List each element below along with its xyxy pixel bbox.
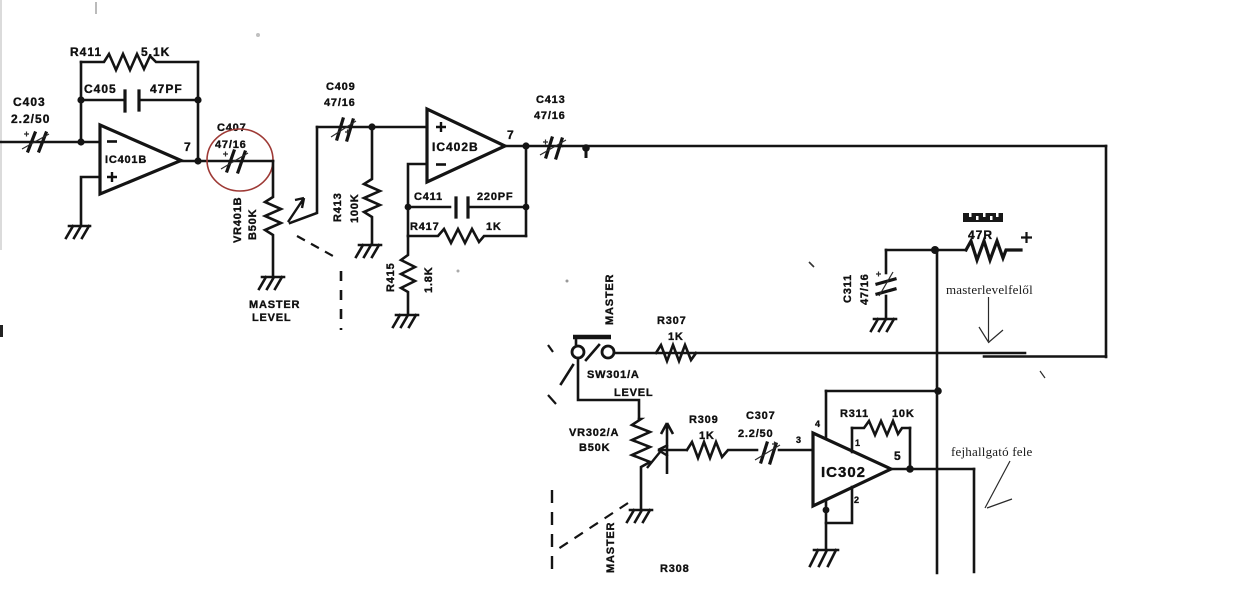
svg-text:47/16: 47/16	[859, 273, 871, 305]
wire output down	[973, 469, 976, 572]
resistor R413	[332, 127, 380, 244]
node junction R413 top	[368, 123, 375, 130]
wire IC302 output	[891, 468, 974, 471]
wire C311/R313 node	[886, 249, 966, 252]
svg-text:47/16: 47/16	[534, 110, 566, 122]
resistor R313	[963, 213, 1021, 260]
wire C307 to IC302	[779, 449, 813, 452]
svg-text:47R: 47R	[968, 228, 993, 242]
svg-text:MASTER: MASTER	[605, 522, 617, 573]
svg-text:masterlevelfelől: masterlevelfelől	[946, 282, 1033, 297]
svg-text:1: 1	[855, 438, 860, 448]
switch SW301/A	[561, 337, 653, 399]
pin 2 loop	[826, 487, 859, 523]
capacitor C307	[738, 410, 780, 463]
wire feedback right vertical	[525, 146, 528, 236]
wire master level run	[615, 352, 1025, 355]
wire -input loop	[408, 164, 427, 236]
node junction C405 right	[194, 96, 201, 103]
node output junction	[522, 142, 529, 149]
svg-text:3: 3	[796, 435, 801, 445]
svg-text:LEVEL: LEVEL	[614, 387, 653, 399]
svg-text:100K: 100K	[349, 194, 361, 224]
dashed gang linkage from VR401B	[297, 236, 333, 256]
capacitor C403	[11, 95, 50, 151]
ground under C311	[871, 319, 896, 331]
node junction loop	[934, 387, 942, 395]
wire +input to ground	[81, 177, 100, 224]
svg-text:47/16: 47/16	[324, 97, 356, 109]
svg-text:2: 2	[854, 495, 859, 505]
wiper VR302/A	[647, 423, 687, 474]
svg-text:1K: 1K	[699, 430, 715, 442]
svg-text:LEVEL: LEVEL	[252, 312, 291, 324]
ground under VR401B	[259, 277, 284, 289]
wire feedback left vertical	[80, 62, 83, 142]
svg-text:C403: C403	[13, 95, 46, 109]
capacitor C409	[324, 81, 356, 140]
svg-text:IC302: IC302	[821, 464, 866, 481]
pin 1 stub	[851, 428, 854, 452]
svg-text:SW301/A: SW301/A	[587, 369, 640, 381]
svg-text:C311: C311	[842, 274, 854, 303]
node output junction	[194, 157, 201, 164]
dash linkage near switch	[548, 345, 556, 404]
svg-text:7: 7	[184, 140, 191, 154]
annotation masterlevelfelől	[946, 282, 1033, 343]
wire return lower	[984, 355, 1106, 358]
svg-text:B50K: B50K	[579, 442, 610, 454]
svg-text:C409: C409	[326, 81, 356, 93]
resistor R415	[385, 236, 435, 314]
svg-text:47/16: 47/16	[215, 139, 247, 151]
ground under R415	[393, 315, 418, 327]
wire right side vertical	[1105, 146, 1108, 357]
wire top loop to vertical	[826, 390, 938, 393]
op-amp IC402B	[427, 109, 505, 182]
stray mark	[1040, 371, 1045, 378]
node junction R313	[931, 246, 939, 254]
pin 4 stub	[825, 391, 828, 437]
svg-text:C307: C307	[746, 410, 776, 422]
node junctions C411	[405, 204, 412, 211]
potentiometer VR302/A	[569, 419, 650, 510]
ground under IC302	[810, 550, 838, 566]
capacitor C311	[842, 250, 895, 319]
wiper VR401B	[288, 127, 317, 223]
capacitor C405	[81, 82, 198, 111]
node stub after C413	[582, 144, 590, 152]
dashed gang linkage lower	[558, 503, 628, 549]
node junction C405 left	[77, 96, 84, 103]
resistor R309	[687, 414, 757, 458]
svg-text:2.2/50: 2.2/50	[11, 112, 50, 126]
svg-text:2.2/50: 2.2/50	[738, 428, 773, 440]
resistor R411	[70, 45, 198, 70]
plus supply mark	[1021, 232, 1032, 243]
scan edge artifact left	[0, 0, 2, 250]
label MASTER LEVEL	[249, 299, 300, 324]
node junction R311 output	[906, 465, 914, 473]
svg-text:R417: R417	[410, 221, 440, 233]
svg-text:VR302/A: VR302/A	[569, 427, 619, 439]
capacitor C413	[534, 94, 566, 158]
svg-text:IC401B: IC401B	[105, 154, 147, 166]
resistor R417	[408, 221, 526, 243]
svg-text:MASTER: MASTER	[604, 274, 616, 325]
svg-text:10K: 10K	[892, 408, 915, 420]
wire feedback right vertical	[197, 62, 200, 161]
wire switch to VR302/A	[578, 358, 639, 419]
svg-text:VR401B: VR401B	[232, 197, 244, 243]
svg-text:IC402B: IC402B	[432, 140, 479, 154]
ground	[66, 226, 90, 238]
wire output stage2	[505, 145, 562, 148]
wire long top run	[562, 145, 1106, 148]
svg-text:C413: C413	[536, 94, 566, 106]
annotation fejhallgató fele	[951, 444, 1033, 508]
svg-text:R311: R311	[840, 408, 869, 420]
wire long vertical center-right	[936, 250, 939, 573]
svg-text:7: 7	[507, 128, 514, 142]
svg-text:R415: R415	[385, 263, 397, 293]
svg-text:C407: C407	[217, 122, 247, 134]
svg-text:5: 5	[894, 449, 901, 463]
op-amp IC302	[813, 433, 891, 506]
capacitor C411	[408, 191, 526, 217]
wire R311 to output	[909, 428, 912, 469]
svg-text:1K: 1K	[486, 221, 502, 233]
op-amp IC401B	[100, 125, 181, 194]
ground under VR302/A	[627, 510, 652, 522]
svg-text:B50K: B50K	[247, 209, 259, 240]
svg-text:R411: R411	[70, 45, 102, 59]
svg-text:4: 4	[815, 419, 820, 429]
node junction input	[77, 138, 84, 145]
svg-text:MASTER: MASTER	[249, 299, 300, 311]
svg-text:C405: C405	[84, 82, 117, 96]
svg-text:1.8K: 1.8K	[423, 267, 435, 293]
resistor R307	[656, 315, 696, 361]
red marker circle	[207, 129, 273, 191]
resistor R311	[840, 408, 915, 435]
svg-text:R308: R308	[660, 563, 690, 575]
svg-text:R307: R307	[657, 315, 687, 327]
wire input left	[0, 141, 100, 144]
svg-text:C411: C411	[414, 191, 443, 203]
svg-text:R309: R309	[689, 414, 719, 426]
svg-text:fejhallgató fele: fejhallgató fele	[951, 444, 1033, 459]
wire output stage1	[181, 160, 273, 163]
svg-text:1K: 1K	[668, 331, 684, 343]
svg-text:R413: R413	[332, 193, 344, 223]
svg-text:47PF: 47PF	[150, 82, 183, 96]
wire IC302 to ground	[825, 500, 828, 549]
svg-text:220PF: 220PF	[477, 191, 513, 203]
ground under R413	[356, 245, 381, 257]
capacitor C407	[215, 122, 248, 172]
potentiometer VR401B	[232, 161, 281, 277]
wire C409 node to IC402B	[317, 126, 427, 129]
svg-text:5.1K: 5.1K	[141, 45, 170, 59]
